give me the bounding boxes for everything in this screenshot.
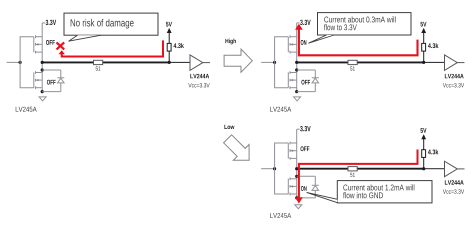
red current path to 3.3V (top-right) [295, 24, 418, 56]
wire junction to buffer (bottom-right) [424, 168, 445, 170]
label High [225, 39, 235, 45]
label Low [224, 125, 234, 129]
resistor 4.3k (left) [167, 43, 184, 51]
wire junction to buffer (left) [169, 61, 190, 63]
resistor 51 (bottom-right) [348, 167, 357, 177]
transistor lower NMOS (bottom-right) [288, 177, 296, 195]
wire 3.3V supply rail (top-right) [297, 23, 300, 63]
buffer U LV244A (bottom-right) [445, 161, 465, 177]
node output junction (top-right) [295, 61, 298, 64]
wire gate lower (bottom-right) [275, 169, 289, 194]
label 3.3V (top-right) [300, 20, 311, 25]
label LV244A (bottom-right) [445, 180, 464, 184]
diode D body (bottom-right) [297, 176, 319, 198]
wire 5V terminal (left) [167, 28, 172, 44]
label LV245A (left) [16, 107, 37, 112]
wire junction to buffer (top-right) [424, 61, 445, 63]
buffer U LV244A (left) [190, 55, 210, 71]
wire input stub (top-right) [261, 61, 275, 63]
block arrow High [224, 49, 252, 72]
wire gate lower (left) [20, 62, 34, 87]
label OFF lower (left) [47, 80, 56, 85]
wire gate upper (left) [20, 37, 34, 63]
node input junction (bottom-right) [273, 167, 276, 170]
resistor 51 (top-right) [348, 60, 357, 70]
label 5V (top-right) [420, 22, 426, 27]
node diode branch bottom (top-right) [295, 90, 298, 93]
wire lower channel to ground (left) [41, 62, 43, 91]
wire gate upper (top-right) [275, 37, 289, 63]
callout: Current about 0.3mA will flow to 3.3V [309, 13, 412, 44]
wire 5V terminal (bottom-right) [421, 134, 426, 150]
node pullup junction (bottom-right) [422, 167, 425, 170]
node input junction (left) [19, 61, 22, 64]
label 5V (bottom-right) [420, 128, 426, 133]
label OFF lower (top-right) [301, 80, 310, 85]
node diode branch top (left) [41, 68, 44, 71]
label Vcc=3.3V (left) [188, 83, 209, 87]
ground (top-right) [294, 97, 301, 101]
transistor upper PMOS (bottom-right) [288, 142, 296, 160]
ground (bottom-right) [295, 205, 302, 209]
diode D body (top-right) [297, 70, 319, 92]
node output junction (bottom-right) [295, 167, 298, 170]
wire gate upper (bottom-right) [275, 143, 289, 169]
transistor upper PMOS (top-right) [288, 35, 296, 53]
diode D body (left) [42, 70, 64, 92]
buffer U LV244A (top-right) [445, 55, 465, 71]
node diode branch bottom (left) [41, 90, 44, 93]
label 3.3V (left) [46, 20, 57, 25]
wire 3.3V supply rail (left) [42, 23, 45, 63]
wire 5V terminal (top-right) [421, 28, 426, 44]
red blocked-current path (left) [59, 40, 164, 56]
transistor lower NMOS (left) [34, 71, 42, 89]
label Vcc=3.3V (bottom-right) [443, 189, 464, 193]
label LV244A (left) [190, 74, 209, 78]
node diode branch bottom (bottom-right) [295, 196, 298, 199]
label 3.3V (bottom-right) [300, 126, 311, 131]
transistor upper PMOS (left) [34, 35, 42, 53]
label Vcc=3.3V (top-right) [443, 83, 464, 87]
wire 3.3V supply rail (bottom-right) [297, 129, 300, 169]
label LV245A (top-right) [270, 107, 291, 112]
label LV244A (top-right) [445, 74, 464, 78]
node output junction (left) [41, 61, 44, 64]
wire lower channel to ground (top-right) [296, 62, 298, 91]
wire input stub (bottom-right) [261, 168, 275, 170]
wire junction to resistor (bottom-right) [423, 157, 425, 168]
label ON upper (top-right) [301, 40, 307, 45]
node pullup junction (left) [168, 61, 171, 64]
resistor 4.3k (top-right) [422, 43, 439, 51]
red X blocked marker (left) [57, 42, 65, 49]
wire main net (left) [42, 61, 169, 63]
resistor 51 (left) [94, 60, 103, 70]
wire main net (top-right) [297, 61, 424, 63]
wire junction to resistor (left) [168, 51, 170, 62]
node pullup junction (top-right) [422, 61, 425, 64]
wire junction to resistor (top-right) [423, 51, 425, 62]
transistor lower NMOS (top-right) [288, 71, 296, 89]
wire input stub (left) [7, 61, 21, 63]
node diode branch top (bottom-right) [295, 175, 298, 178]
block arrow Low [224, 135, 250, 161]
resistor 4.3k (bottom-right) [422, 149, 439, 157]
node diode branch top (top-right) [295, 68, 298, 71]
label ON lower (bottom-right) [301, 186, 307, 191]
label OFF upper (left) [46, 40, 55, 45]
label 5V (left) [166, 22, 172, 27]
label OFF upper (bottom-right) [300, 146, 309, 151]
callout: No risk of damage [64, 13, 158, 41]
callout: Current about 1.2mA will flow into GND [307, 181, 432, 203]
wire main net (bottom-right) [297, 168, 424, 170]
wire gate lower (top-right) [275, 62, 289, 87]
label LV245A (bottom-right) [270, 213, 291, 218]
wire lower channel to ground (bottom-right) [296, 169, 298, 200]
ground (left) [39, 97, 46, 101]
red current path into GND (bottom-right) [295, 150, 418, 204]
node input junction (top-right) [273, 61, 276, 64]
